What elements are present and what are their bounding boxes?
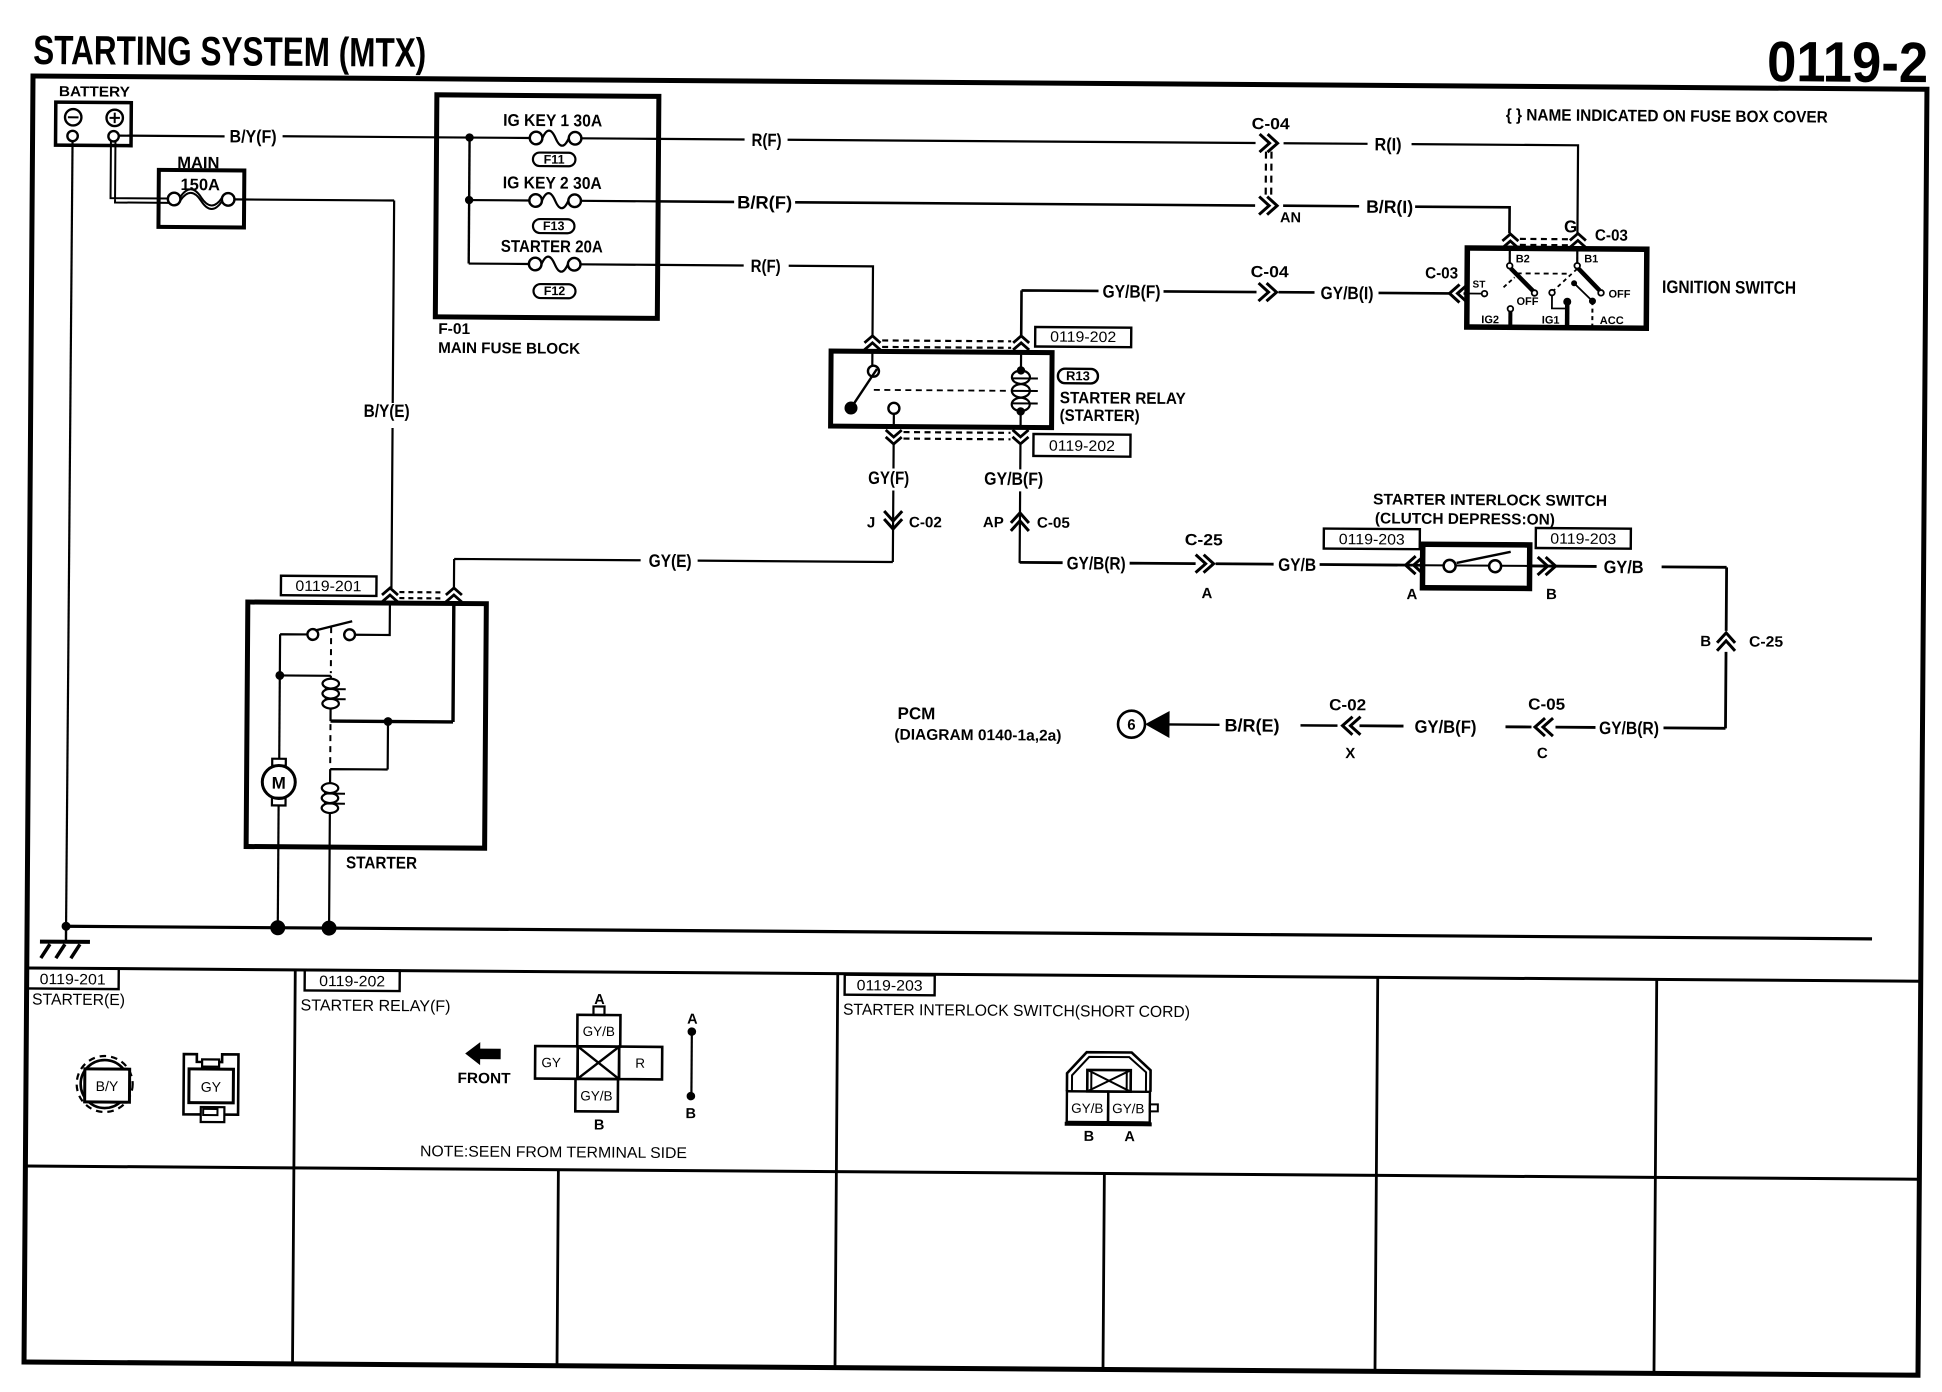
svg-text:BATTERY: BATTERY <box>59 84 130 100</box>
svg-text:STARTING SYSTEM (MTX): STARTING SYSTEM (MTX) <box>33 27 426 76</box>
svg-text:OFF: OFF <box>1608 289 1630 301</box>
svg-text:B: B <box>594 1117 605 1133</box>
svg-text:A: A <box>687 1012 698 1028</box>
wire battery negative to ground bus <box>66 141 72 926</box>
svg-text:IG KEY 1 30A: IG KEY 1 30A <box>503 111 602 131</box>
pin B1 <box>1576 249 1578 263</box>
pin B2 <box>1509 248 1511 263</box>
FRONT arrow <box>465 1042 501 1065</box>
wire B/Y(E) main fuse to starter <box>232 199 394 588</box>
svg-text:IG1: IG1 <box>1542 315 1560 327</box>
junction starter motor to bus <box>270 920 285 935</box>
connector C-04 (B/R wire) pin AN <box>1259 197 1277 215</box>
svg-text:STARTER INTERLOCK SWITCH(SHORT: STARTER INTERLOCK SWITCH(SHORT CORD) <box>843 1002 1190 1021</box>
svg-text:STARTER RELAY(F): STARTER RELAY(F) <box>300 997 450 1015</box>
svg-text:GY/B(F): GY/B(F) <box>984 469 1043 489</box>
svg-text:G: G <box>1564 217 1577 236</box>
connector C-04 (GY/B wire) <box>1258 283 1276 301</box>
label 0119-202 bottom <box>1033 434 1130 457</box>
relay connector pin GY/B bottom <box>575 1079 618 1112</box>
battery negative terminal <box>65 109 82 126</box>
svg-text:ACC: ACC <box>1600 315 1624 327</box>
svg-text:F13: F13 <box>543 219 565 233</box>
wire R(F) starter fuse to relay <box>657 265 873 336</box>
svg-text:C-02: C-02 <box>909 514 942 531</box>
starter magnetic switch contacts <box>355 603 390 635</box>
svg-text:STARTER(E): STARTER(E) <box>32 992 125 1010</box>
wire GY/B(R) <box>1020 562 1423 565</box>
svg-text:{ } NAME INDICATED ON FUSE BOX: { } NAME INDICATED ON FUSE BOX COVER <box>1506 106 1828 126</box>
svg-text:IG2: IG2 <box>1481 314 1499 326</box>
PCM pin 6 <box>1118 711 1145 738</box>
interlock connector key box <box>1087 1070 1131 1092</box>
svg-text:R: R <box>635 1056 645 1071</box>
svg-text:AP: AP <box>983 514 1004 531</box>
svg-text:A: A <box>594 992 605 1008</box>
svg-text:0119-203: 0119-203 <box>857 977 923 994</box>
svg-text:STARTER RELAY: STARTER RELAY <box>1060 389 1186 408</box>
svg-text:F11: F11 <box>544 153 565 167</box>
connector C-04 (R wire) <box>1259 134 1277 152</box>
connector C-25 interlock pin A <box>1406 556 1424 574</box>
svg-text:GY/B: GY/B <box>1278 555 1316 575</box>
svg-text:IG KEY 2 30A: IG KEY 2 30A <box>503 173 602 193</box>
bridge wire GY(E) inside starter <box>331 603 454 722</box>
relay connector view keyway tab <box>593 1006 604 1015</box>
harness connector below relay (0119-202) <box>886 430 902 444</box>
svg-text:A: A <box>1406 586 1417 603</box>
svg-text:FRONT: FRONT <box>457 1070 510 1087</box>
svg-text:GY/B: GY/B <box>583 1024 615 1039</box>
svg-text:B: B <box>685 1106 696 1122</box>
svg-text:A: A <box>1201 585 1212 602</box>
wire B/R(F) row 2 <box>658 201 1255 205</box>
svg-text:F12: F12 <box>544 284 566 298</box>
svg-text:(CLUTCH DEPRESS:ON): (CLUTCH DEPRESS:ON) <box>1375 510 1555 528</box>
junction bus row2 <box>465 196 473 204</box>
svg-text:STARTER INTERLOCK SWITCH: STARTER INTERLOCK SWITCH <box>1373 491 1607 510</box>
relay connector pin R right <box>619 1047 662 1080</box>
junction battery feed / fuse bus <box>465 133 473 141</box>
starter pull-in coil <box>280 674 331 677</box>
svg-text:B/R(I): B/R(I) <box>1366 197 1413 217</box>
svg-text:ST: ST <box>1473 280 1486 291</box>
dashed B1 to IG1 <box>1554 269 1578 291</box>
svg-text:(DIAGRAM 0140-1a,2a): (DIAGRAM 0140-1a,2a) <box>894 727 1061 745</box>
svg-text:0119-201: 0119-201 <box>295 578 361 595</box>
svg-text:C-04: C-04 <box>1251 264 1289 281</box>
svg-text:STARTER: STARTER <box>346 853 417 872</box>
wire GY/B(F) coil output down <box>1019 445 1022 563</box>
relay coil <box>1019 352 1022 427</box>
connector view label 0119-202 <box>305 970 400 991</box>
svg-text:GY: GY <box>201 1079 222 1095</box>
relay dashed link switch-coil <box>874 389 1006 392</box>
svg-text:GY/B(F): GY/B(F) <box>1414 717 1476 737</box>
svg-text:B: B <box>1700 633 1711 650</box>
svg-text:R(I): R(I) <box>1374 134 1401 154</box>
svg-text:150A: 150A <box>180 176 220 194</box>
interlock connector pin GY/B B <box>1067 1091 1109 1122</box>
wire battery positive to main fuse (double line) <box>111 142 170 203</box>
pin ST <box>1467 293 1482 295</box>
svg-text:R13: R13 <box>1066 368 1090 383</box>
svg-text:C-25: C-25 <box>1749 633 1783 650</box>
svg-text:R(F): R(F) <box>751 256 781 276</box>
pin IG2 <box>1508 306 1514 312</box>
svg-text:6: 6 <box>1127 717 1135 734</box>
pin ACC <box>1571 280 1577 286</box>
svg-text:NOTE:SEEN FROM TERMINAL SIDE: NOTE:SEEN FROM TERMINAL SIDE <box>420 1143 687 1162</box>
svg-text:GY: GY <box>541 1055 561 1070</box>
svg-text:C: C <box>1537 745 1548 762</box>
svg-text:AN: AN <box>1280 210 1301 226</box>
svg-text:OFF: OFF <box>1516 296 1538 308</box>
wire R(I) <box>1283 143 1578 234</box>
harness connector into starter (0119-201) <box>382 588 398 602</box>
connector C-25 interlock pin B <box>1538 557 1556 575</box>
svg-text:B/Y(F): B/Y(F) <box>230 126 277 146</box>
starter interlock switch <box>1422 544 1529 588</box>
svg-text:F-01: F-01 <box>438 321 470 338</box>
svg-text:GY/B: GY/B <box>1112 1101 1144 1116</box>
svg-text:(STARTER): (STARTER) <box>1060 407 1140 426</box>
battery <box>56 102 132 146</box>
starter mechanical link dashed <box>329 627 332 766</box>
svg-text:C-05: C-05 <box>1037 515 1070 532</box>
svg-text:B2: B2 <box>1516 253 1530 265</box>
svg-text:GY/B: GY/B <box>1604 557 1644 577</box>
fuse F13 IG KEY 2 30A <box>469 200 658 201</box>
svg-text:C-03: C-03 <box>1595 227 1628 244</box>
ignition lever B1 to OFF <box>1578 268 1600 290</box>
fuse MAIN 150A <box>158 170 244 228</box>
ground bus <box>64 926 1872 939</box>
relay connector pin GY left <box>535 1046 578 1079</box>
svg-text:M: M <box>272 774 286 793</box>
fuse F11 IG KEY 1 30A <box>470 138 659 139</box>
svg-text:0119-202: 0119-202 <box>1049 438 1115 455</box>
connector C-25 pin B vertical <box>1717 633 1735 651</box>
wire B/R(E) <box>1168 724 1338 725</box>
label 0119-201 <box>281 576 377 596</box>
connector C-03 (GY/B wire) <box>1449 284 1467 302</box>
label 0119-202 top <box>1035 327 1131 347</box>
pin IG1 <box>1549 290 1555 296</box>
harness connector above relay (0119-202) <box>864 336 880 350</box>
svg-text:GY/B(R): GY/B(R) <box>1067 553 1126 573</box>
svg-text:C-02: C-02 <box>1329 697 1366 714</box>
starter <box>246 602 486 848</box>
label 0119-203 right <box>1536 528 1631 549</box>
svg-text:C-25: C-25 <box>1185 532 1223 549</box>
svg-text:0119-203: 0119-203 <box>1339 531 1405 548</box>
fuse F12 STARTER 20A <box>469 264 658 265</box>
ignition switch <box>1467 248 1647 328</box>
fuse id F11 <box>533 152 576 166</box>
svg-text:X: X <box>1345 745 1355 762</box>
ignition feed stub <box>1563 298 1571 306</box>
connector GY square <box>183 1054 238 1115</box>
connector C-25 pin A <box>1196 555 1214 573</box>
svg-text:0119-201: 0119-201 <box>40 971 106 988</box>
connector C-05 pin AP <box>1011 513 1029 531</box>
interlock connector pin GY/B A <box>1108 1092 1150 1123</box>
starter relay R13 <box>831 351 1053 428</box>
svg-text:C-04: C-04 <box>1252 116 1290 133</box>
relay switch <box>871 351 873 365</box>
svg-text:GY/B: GY/B <box>580 1088 612 1103</box>
svg-text:GY/B: GY/B <box>1071 1101 1103 1116</box>
svg-text:B/R(F): B/R(F) <box>737 192 792 212</box>
wire B/R(I) <box>1283 206 1510 234</box>
relay connector pin GY/B top <box>577 1015 620 1047</box>
svg-text:GY/B(F): GY/B(F) <box>1102 281 1160 301</box>
wire B/Y(F) battery to fuse block <box>119 135 470 138</box>
wire GY/B interlock to PCM row <box>1528 566 1726 728</box>
wire R(F) row 1 <box>659 139 1256 143</box>
fuse id F12 <box>533 284 575 298</box>
wire GY(E) <box>454 559 893 592</box>
svg-text:B: B <box>1084 1129 1095 1145</box>
connector view label 0119-201 <box>27 968 119 989</box>
svg-text:B/Y(E): B/Y(E) <box>364 401 410 421</box>
svg-text:C-05: C-05 <box>1528 696 1565 713</box>
svg-text:0119-203: 0119-203 <box>1550 531 1616 548</box>
svg-text:0119-202: 0119-202 <box>1050 329 1116 346</box>
svg-text:B1: B1 <box>1584 253 1598 265</box>
fuse block F-01 <box>435 95 659 319</box>
connector C-03 harness into ignition switch, pin G <box>1502 234 1518 248</box>
connector view label 0119-203 <box>845 975 935 996</box>
connector C-05 pin C <box>1535 718 1553 736</box>
svg-text:0119-202: 0119-202 <box>319 973 385 990</box>
svg-text:GY(F): GY(F) <box>868 468 909 488</box>
relay connector center key <box>578 1046 620 1079</box>
fuse id F13 <box>533 219 575 233</box>
svg-text:GY/B(I): GY/B(I) <box>1320 283 1373 303</box>
svg-text:MAIN: MAIN <box>177 154 219 172</box>
svg-text:R(F): R(F) <box>752 130 782 150</box>
svg-text:J: J <box>867 514 875 531</box>
svg-text:A: A <box>1124 1129 1135 1145</box>
wire contact to motor branch <box>280 634 308 675</box>
interlock connector housing <box>1067 1052 1151 1092</box>
connector B/Y round <box>76 1056 132 1112</box>
svg-text:B/Y: B/Y <box>96 1078 119 1094</box>
svg-text:B: B <box>1546 586 1557 603</box>
ignition lever B2 to OFF <box>1511 268 1534 291</box>
label R13 <box>1012 378 1038 403</box>
wire GY(F) <box>892 444 895 562</box>
svg-text:GY(E): GY(E) <box>649 551 692 571</box>
starter motor M <box>278 675 281 758</box>
wire GY/B(F) relay coil to ignition <box>1021 290 1467 339</box>
battery positive terminal <box>106 110 123 127</box>
svg-text:0119-2: 0119-2 <box>1767 30 1928 95</box>
svg-text:PCM: PCM <box>898 704 936 723</box>
svg-text:MAIN FUSE BLOCK: MAIN FUSE BLOCK <box>438 340 581 358</box>
svg-text:C-03: C-03 <box>1425 265 1458 282</box>
fuse block internal bus <box>468 138 471 264</box>
junction starter coil to bus <box>322 921 337 936</box>
connector C-02 pin J <box>884 511 902 529</box>
svg-text:GY/B(R): GY/B(R) <box>1599 718 1659 738</box>
dashed mechanical link levers <box>1517 272 1569 274</box>
connector C-02 pin X <box>1342 717 1360 735</box>
svg-text:STARTER 20A: STARTER 20A <box>501 237 603 257</box>
label 0119-203 left <box>1324 529 1420 550</box>
wire GY/B(F) PCM row <box>1359 726 1531 727</box>
ground <box>65 926 68 941</box>
svg-text:B/R(E): B/R(E) <box>1224 715 1279 735</box>
starter hold-in coil <box>330 721 388 783</box>
svg-text:IGNITION SWITCH: IGNITION SWITCH <box>1662 277 1796 298</box>
